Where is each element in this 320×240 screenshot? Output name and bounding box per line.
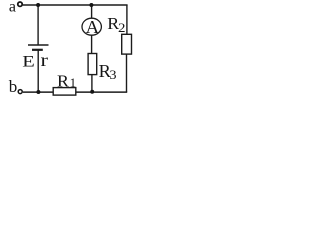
svg-text:1: 1	[70, 75, 77, 90]
svg-text:E: E	[22, 53, 35, 70]
svg-text:a: a	[9, 0, 16, 15]
svg-text:3: 3	[109, 68, 116, 82]
svg-text:A: A	[86, 17, 100, 37]
svg-text:2: 2	[118, 22, 125, 36]
svg-text:b: b	[9, 77, 17, 96]
svg-text:R: R	[57, 71, 69, 91]
svg-text:r: r	[41, 51, 49, 70]
